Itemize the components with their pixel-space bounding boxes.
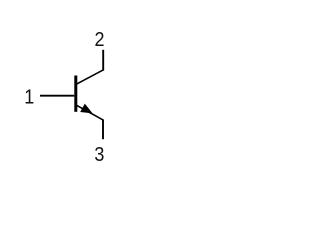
wire base lead (pin 1): [40, 95, 74, 97]
emitter arrow (NPN): [80, 104, 92, 114]
wire collector diagonal: [76, 70, 103, 85]
wire collector lead (pin 2): [102, 50, 104, 71]
svg-text:1: 1: [24, 87, 34, 109]
wire emitter diagonal: [76, 105, 103, 120]
wire emitter lead (pin 3): [102, 119, 104, 139]
transistor Q1 base bar: [74, 76, 77, 112]
svg-text:3: 3: [94, 144, 104, 166]
svg-text:2: 2: [94, 29, 104, 51]
